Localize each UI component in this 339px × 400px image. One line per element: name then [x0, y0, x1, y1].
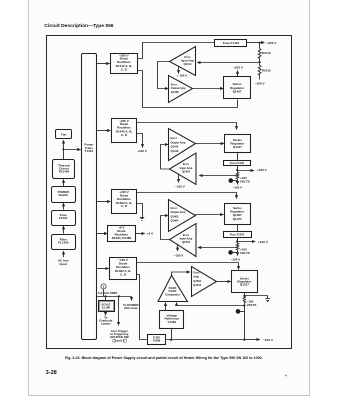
- wire +225 V reference stub: [233, 65, 243, 76]
- svg-text:Q1434: Q1434: [182, 169, 190, 173]
- node regulator output: [243, 293, 245, 297]
- svg-text:Output Amp: Output Amp: [171, 140, 186, 144]
- svg-text:ILLUM: ILLUM: [102, 306, 110, 310]
- svg-text:Error: Error: [183, 162, 189, 166]
- svg-text:Q1454: Q1454: [182, 240, 190, 244]
- wire +100V tap stub: [137, 134, 147, 154]
- wire feedback to input amp: [198, 247, 237, 249]
- node test point -150 VOLTS: [236, 306, 245, 340]
- fan box: [56, 130, 72, 139]
- transistor series regulator Q1467 Q1477: [225, 204, 251, 225]
- node +100 output junction: [236, 237, 269, 243]
- wire error amp to series regulator: [216, 281, 231, 283]
- svg-text:Q1414: Q1414: [184, 62, 192, 66]
- svg-text:C, D: C, D: [121, 67, 128, 71]
- node heater winding circle: [101, 284, 106, 297]
- wire input amp to output amp: [161, 216, 170, 240]
- svg-text:Input Amp: Input Amp: [181, 58, 194, 62]
- wire comparator to error amp: [172, 272, 191, 276]
- svg-text:−150 V: −150 V: [175, 185, 185, 189]
- svg-text:R1416: R1416: [262, 51, 271, 55]
- wire line trigger: [110, 296, 129, 342]
- thermal cutout TK1404: [53, 160, 75, 179]
- svg-text:Input Amp: Input Amp: [180, 166, 193, 170]
- node test point +100 VOLTS: [228, 248, 249, 262]
- node divider tap: [197, 58, 261, 64]
- svg-text:Error: Error: [171, 82, 177, 86]
- wire rectifier to series regulator Q1517: [137, 263, 239, 270]
- resistor R1416: [258, 43, 271, 59]
- svg-text:Fuse F1424: Fuse F1424: [223, 41, 240, 45]
- voltage reference V1462: [160, 311, 184, 329]
- svg-text:Fuse F1478: Fuse F1478: [230, 233, 245, 237]
- svg-text:Error: Error: [193, 270, 199, 274]
- scale illum box: [99, 296, 115, 311]
- op-amp error input amp Q1434: [170, 153, 197, 185]
- wire winding to +225 rectifier: [97, 130, 111, 132]
- wire -150V bias stub: [174, 245, 184, 258]
- wire to graticule lamps: [99, 311, 112, 325]
- svg-text:Q1446: Q1446: [171, 149, 179, 153]
- wire -150V bias stub: [175, 174, 185, 188]
- resistor divider section 2: [236, 171, 239, 179]
- svg-text:T1401: T1401: [85, 149, 94, 153]
- svg-text:Error: Error: [184, 55, 190, 59]
- wire rectifier to series regulator Q1467: [137, 193, 237, 199]
- wire winding to -150 rectifier: [97, 268, 109, 270]
- fuse F1489: [148, 335, 166, 345]
- transistor series regulator Q1447: [225, 135, 251, 153]
- rectifier D1442 box: [112, 119, 137, 143]
- svg-text:Fig. 3-22. Block diagram of Po: Fig. 3-22. Block diagram of Power Supply…: [65, 356, 263, 360]
- op-amp error input amp Q1414: [170, 47, 196, 76]
- rectifier D1484 D1486 box: [108, 226, 136, 242]
- node +225 output junction: [236, 166, 268, 173]
- svg-text:D1484, D1486: D1484, D1486: [112, 236, 132, 240]
- wire heater winding to fuse: [137, 275, 148, 340]
- fuse F1424: [215, 40, 247, 47]
- wire winding to +350 rectifier: [97, 63, 110, 65]
- svg-text:D1494: D1494: [169, 289, 177, 293]
- op-amp error output amp Q1406: [169, 76, 193, 103]
- svg-text:Error: Error: [171, 206, 177, 210]
- svg-text:Fan: Fan: [61, 133, 67, 137]
- svg-text:C, D: C, D: [120, 272, 127, 276]
- resistor divider section 3: [236, 242, 239, 250]
- svg-text:Output Amp: Output Amp: [171, 210, 186, 214]
- wire 6.3 VAC bus: [96, 295, 132, 297]
- wire thermal to fan: [63, 140, 65, 159]
- node feedback junction: [243, 305, 245, 307]
- svg-text:−150 V: −150 V: [233, 186, 243, 190]
- svg-text:+350 V: +350 V: [267, 41, 278, 45]
- svg-text:Q1513: Q1513: [193, 283, 201, 287]
- wire input amp to output amp: [161, 145, 170, 170]
- svg-text:+100 V: +100 V: [258, 240, 269, 244]
- wire output amp to series regulator: [193, 88, 224, 90]
- svg-text:Q1406: Q1406: [171, 90, 179, 94]
- svg-text:+225 V: +225 V: [233, 65, 243, 69]
- rectifier D1462 box: [112, 190, 137, 214]
- svg-text:F1489: F1489: [153, 339, 161, 343]
- wire feedback to input amp: [199, 175, 237, 177]
- wire rectifier lower output loop: [138, 71, 238, 108]
- wire fuse to +350 output: [247, 42, 260, 44]
- svg-text:3-28: 3-28: [46, 370, 57, 376]
- svg-text:C, D: C, D: [121, 133, 128, 137]
- rectifier D1482 box: [110, 258, 137, 280]
- svg-text:−150 V: −150 V: [231, 257, 241, 261]
- wire feedback to comparator: [177, 303, 245, 306]
- wire to power on lamp: [123, 297, 139, 310]
- svg-text:F1401: F1401: [59, 216, 68, 220]
- svg-text:Q1443: Q1443: [171, 145, 179, 149]
- wire rectifier to series regulator Q1447: [137, 123, 237, 130]
- transistor series regulator Q1517: [232, 271, 258, 293]
- svg-text:C, D: C, D: [121, 204, 128, 208]
- fuse F1478: [224, 225, 252, 238]
- ground: [245, 296, 270, 302]
- wire output amp to series regulator: [195, 143, 224, 145]
- svg-text:−150 V: −150 V: [263, 338, 274, 342]
- ground stub from rectifier: [137, 204, 145, 221]
- svg-text:Switch: Switch: [58, 193, 68, 197]
- resistor divider section 4: [243, 296, 245, 306]
- svg-text:−150 V: −150 V: [174, 254, 184, 258]
- svg-text:Input Amp: Input Amp: [180, 237, 193, 241]
- fuse F1401: [52, 203, 76, 226]
- wire output amp to series regulator: [195, 214, 224, 216]
- wire +6V output: [135, 232, 154, 236]
- resistor R1412: [255, 62, 271, 85]
- svg-text:FL1400: FL1400: [58, 241, 69, 245]
- svg-text:+225 V: +225 V: [257, 168, 268, 172]
- svg-text:Q1447: Q1447: [233, 145, 242, 149]
- wire to transformer primary: [63, 149, 80, 151]
- svg-text:Circuit Description—Type 556: Circuit Description—Type 556: [44, 23, 113, 29]
- svg-text:Q1504: Q1504: [193, 279, 201, 283]
- rectifier D1412 box: [111, 53, 138, 73]
- svg-text:Lamps: Lamps: [101, 322, 111, 326]
- svg-text:Q1464: Q1464: [171, 219, 179, 223]
- svg-text:Q1517: Q1517: [240, 283, 249, 287]
- svg-text:+ 100 V: + 100 V: [177, 73, 187, 77]
- svg-text:Error: Error: [183, 233, 189, 237]
- wire winding to +100 rectifier: [97, 201, 111, 203]
- svg-text:Output Amp: Output Amp: [171, 86, 186, 90]
- svg-text:VOLTS: VOLTS: [240, 251, 250, 255]
- svg-text:TK1404: TK1404: [59, 170, 70, 174]
- node AC line input: [58, 251, 69, 266]
- transistor series regulator Q1407: [224, 77, 251, 99]
- svg-text:ON Lamp: ON Lamp: [124, 306, 138, 310]
- svg-text:6.3 VAC RMS: 6.3 VAC RMS: [98, 291, 117, 295]
- node +350 junction: [259, 42, 261, 44]
- svg-text:Q1407: Q1407: [233, 90, 242, 94]
- svg-text:Input: Input: [60, 262, 68, 266]
- wire winding to +6V rectifier: [97, 233, 108, 235]
- svg-text:+6 V: +6 V: [147, 232, 154, 236]
- svg-text:Fuse F1448: Fuse F1448: [230, 161, 245, 165]
- svg-text:Error: Error: [171, 136, 177, 140]
- svg-text:Q1477: Q1477: [233, 217, 242, 221]
- wire rectifier top output to fuse: [138, 43, 215, 59]
- wire reference to comparator: [165, 303, 167, 311]
- svg-text:+100 V: +100 V: [137, 149, 147, 153]
- op-amp error input amp Q1454: [170, 224, 197, 257]
- op-amp error amp Q1504 Q1513: [192, 267, 217, 297]
- svg-text:VOLTS: VOLTS: [240, 179, 250, 183]
- node junction fan/transformer: [62, 148, 64, 150]
- wire fuse to -150 rail: [166, 328, 274, 342]
- wire input amp to output amp: [158, 62, 170, 89]
- svg-text:Amp: Amp: [193, 275, 199, 279]
- svg-text:VOLTS: VOLTS: [247, 303, 257, 307]
- fuse F1448: [224, 153, 251, 166]
- svg-text:V1462: V1462: [167, 320, 176, 324]
- filter FL1400: [52, 226, 76, 250]
- POWER switch: [52, 179, 76, 202]
- svg-text:Q1463: Q1463: [171, 214, 179, 218]
- svg-text:Comparator: Comparator: [165, 292, 180, 296]
- comparator D1484 D1494: [158, 276, 188, 302]
- wire +100V bias stub: [177, 67, 187, 78]
- svg-text:R1412: R1412: [262, 68, 271, 72]
- op-amp error output amp Q1463 Q1464: [169, 200, 196, 232]
- diagram outer border: [47, 36, 292, 349]
- node test point +225 VOLTS: [229, 176, 250, 190]
- svg-text:−150 V: −150 V: [255, 82, 266, 86]
- op-amp error output amp Q1443 Q1446: [169, 129, 196, 161]
